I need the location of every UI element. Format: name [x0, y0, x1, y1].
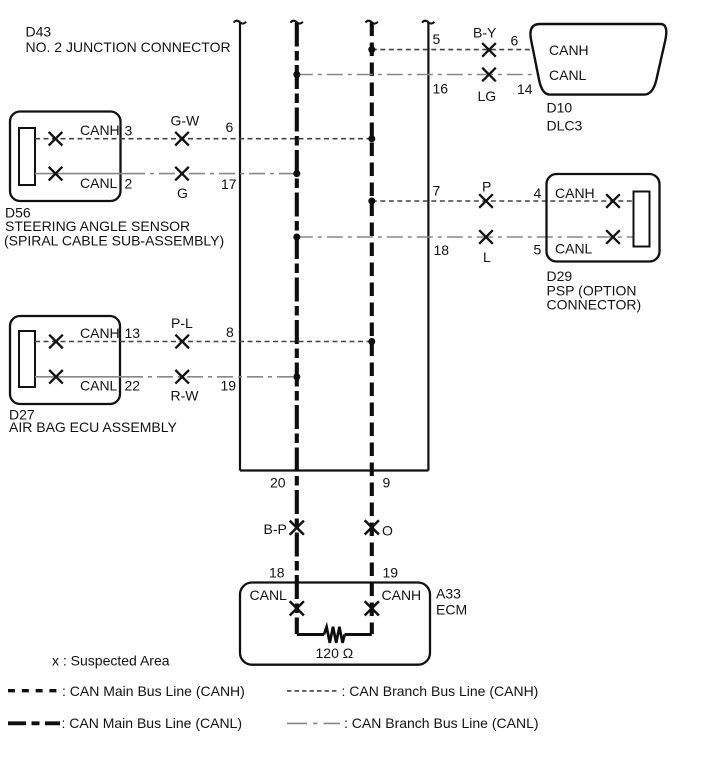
svg-text:CANL: CANL [555, 241, 593, 257]
svg-text:120 Ω: 120 Ω [316, 645, 354, 661]
suspected area marker X on G-W wire [175, 132, 189, 146]
wire CANL branch: D27 pin 22 solid segment [35, 376, 143, 378]
suspected area marker X on B-Y wire [482, 43, 496, 57]
svg-text:14: 14 [517, 81, 533, 97]
connector D27 air bag ECU body [10, 316, 120, 404]
suspected area marker X at D27 CANL terminal [49, 370, 63, 384]
svg-text:5: 5 [534, 242, 542, 258]
junction dot CANH main bus / row A [368, 46, 375, 53]
svg-text:CANL: CANL [549, 67, 587, 83]
svg-text:D43: D43 [26, 24, 52, 40]
suspected area marker X at D56 CANL terminal [49, 167, 63, 181]
suspected area marker X at D56 CANH terminal [49, 132, 63, 146]
terminating resistor wire left segment [297, 633, 324, 636]
suspected area marker X on L wire [479, 230, 493, 244]
svg-text:P: P [482, 179, 491, 195]
suspected area marker X at D27 CANH terminal [49, 335, 63, 349]
suspected area marker X on B-P wire (CANL main bus) [290, 521, 304, 535]
ECU A33 ECM body [240, 583, 430, 665]
svg-text:: CAN Main Bus Line (CANL): : CAN Main Bus Line (CANL) [62, 715, 243, 731]
suspected area marker X on P wire [479, 194, 493, 208]
junction dot CANH main bus / row E [368, 198, 375, 205]
suspected area marker X at ECM CANH terminal [365, 601, 379, 615]
wire CANL branch: D27 pin 22 to D43 pin 19 (row H) [143, 376, 297, 378]
suspected area marker X at D29 CANL terminal [606, 230, 620, 244]
svg-text:3: 3 [125, 123, 133, 139]
svg-text:20: 20 [270, 475, 286, 491]
connector D43 bottom edge [240, 469, 428, 471]
svg-text:6: 6 [511, 33, 519, 49]
svg-text:G: G [177, 185, 188, 201]
svg-text:13: 13 [125, 325, 141, 341]
legend sample: CAN main bus line CANL [8, 721, 60, 725]
legend sample: CAN branch bus line CANL [287, 722, 340, 724]
svg-text:LG: LG [478, 88, 497, 104]
svg-text:B-Y: B-Y [473, 25, 497, 41]
svg-text:17: 17 [221, 176, 237, 192]
svg-text:P-L: P-L [171, 315, 193, 331]
junction dot CANH main bus / row G [368, 338, 375, 345]
break symbol atop CANL main bus [291, 21, 303, 24]
terminating resistor wire right segment [345, 633, 372, 636]
suspected area marker X on O wire (CANH main bus) [365, 520, 379, 534]
connector D43 right edge wire (vertical) [427, 23, 429, 471]
svg-text:CANL: CANL [80, 175, 118, 191]
break symbol atop CANH main bus [366, 21, 378, 24]
svg-text:8: 8 [226, 324, 234, 340]
connector D56 steering angle sensor body [10, 112, 121, 202]
svg-text:AIR BAG ECU ASSEMBLY: AIR BAG ECU ASSEMBLY [9, 419, 177, 435]
svg-text:2: 2 [125, 176, 133, 192]
svg-text:4: 4 [534, 185, 542, 201]
svg-text:DLC3: DLC3 [547, 118, 583, 134]
svg-text:22: 22 [125, 378, 141, 394]
svg-text:9: 9 [383, 475, 391, 491]
svg-text:5: 5 [433, 31, 441, 47]
svg-text:L: L [483, 249, 491, 265]
svg-text:CONNECTOR): CONNECTOR) [547, 297, 642, 313]
junction dot CANL main bus / row F [293, 234, 300, 241]
connector D29 PSP body [547, 174, 660, 262]
junction dot CANL main bus / row B [293, 71, 300, 78]
svg-text:CANL: CANL [80, 378, 118, 394]
svg-text:G-W: G-W [171, 113, 201, 129]
svg-text:CANH: CANH [80, 122, 120, 138]
D29 terminal pin rectangle [634, 192, 650, 247]
svg-text:7: 7 [433, 183, 441, 199]
svg-text:x : Suspected Area: x : Suspected Area [52, 653, 170, 669]
svg-text:19: 19 [383, 565, 399, 581]
svg-text:6: 6 [226, 119, 234, 135]
svg-text:19: 19 [221, 378, 237, 394]
svg-text:: CAN Branch Bus Line (CANH): : CAN Branch Bus Line (CANH) [342, 683, 539, 699]
svg-text:CANH: CANH [382, 587, 422, 603]
svg-text:B-P: B-P [264, 521, 287, 537]
suspected area marker X at ECM CANL terminal [290, 601, 304, 615]
break symbol atop D43 right edge [422, 21, 434, 24]
suspected area marker X on LG wire [482, 68, 496, 82]
svg-text:CANH: CANH [549, 42, 589, 58]
svg-text:NO. 2 JUNCTION CONNECTOR: NO. 2 JUNCTION CONNECTOR [26, 39, 231, 55]
connector D10 DLC3 body (trapezoid) [530, 24, 666, 95]
suspected area marker X at D29 CANH terminal [606, 194, 620, 208]
junction dot CANL main bus / row D [293, 170, 300, 177]
svg-text:R-W: R-W [171, 388, 200, 404]
CAN main bus line CANH (thick dashed vertical) [370, 23, 374, 635]
terminating resistor R 120 ohm (zigzag) [324, 627, 345, 643]
svg-text:18: 18 [434, 242, 450, 258]
svg-text:(SPIRAL CABLE SUB-ASSEMBLY): (SPIRAL CABLE SUB-ASSEMBLY) [4, 233, 224, 249]
legend sample: CAN branch bus line CANH [287, 690, 339, 692]
svg-text:A33: A33 [436, 586, 461, 602]
suspected area marker X on P-L wire [175, 335, 189, 349]
svg-text:CANL: CANL [250, 587, 288, 603]
suspected area marker X on R-W wire [175, 370, 189, 384]
wire CANL branch: D56 pin 2 solid segment [35, 173, 145, 175]
legend sample: CAN main bus line CANH [8, 689, 58, 692]
wire CANH branch: D43 pin 5 to D10 DLC3 pin 6 (row A) [372, 49, 533, 51]
break symbol atop D43 left edge [234, 21, 246, 24]
wire CANH branch: D27 pin 13 to D43 pin 8 (row G) [35, 341, 372, 343]
junction dot CANL main bus / row H [293, 373, 300, 380]
wire CANL branch: D43 pin 18 to D29 pin 5 (row F) [297, 236, 634, 238]
svg-text:18: 18 [269, 565, 285, 581]
CAN main bus line CANL (thick dash-dot vertical) [295, 23, 299, 635]
connector D43 left edge wire (vertical) [239, 23, 241, 471]
svg-text:: CAN Main Bus Line (CANH): : CAN Main Bus Line (CANH) [62, 683, 245, 699]
svg-text:CANH: CANH [80, 325, 120, 341]
svg-text:ECM: ECM [436, 602, 467, 618]
svg-text:16: 16 [433, 81, 449, 97]
svg-text:D10: D10 [547, 100, 573, 116]
svg-text:CANH: CANH [555, 185, 595, 201]
svg-text:O: O [382, 523, 393, 539]
D27 terminal pin rectangle [19, 331, 35, 387]
wire CANL branch: D43 pin 16 to D10 DLC3 pin 14 (row B) [297, 74, 538, 76]
wire CANH branch: D56 pin 3 to D43 pin 6 (row C) [35, 138, 372, 140]
D56 terminal pin rectangle [19, 128, 35, 185]
junction dot CANH main bus / row C [368, 135, 375, 142]
suspected area marker X on G wire [175, 167, 189, 181]
wire CANH branch: D43 pin 7 to D29 pin 4 (row E) [372, 200, 634, 202]
svg-text:: CAN Branch Bus Line (CANL): : CAN Branch Bus Line (CANL) [344, 715, 539, 731]
wire CANL branch: D56 pin 2 to D43 pin 17 (row D) [145, 173, 297, 175]
